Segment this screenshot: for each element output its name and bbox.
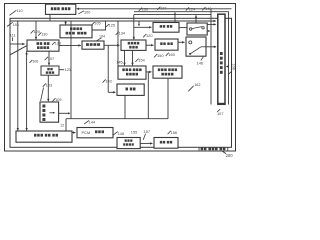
wire modem to rf box (146, 71, 151, 73)
svg-text:160: 160 (168, 52, 175, 57)
svg-text:106: 106 (32, 60, 38, 64)
svg-text:130: 130 (41, 32, 47, 36)
svg-text:142: 142 (105, 78, 112, 83)
wire amp down to bus2 (124, 95, 126, 118)
wire hpf to vocoder (104, 44, 119, 46)
switch 126 (hook switch) (187, 23, 207, 35)
bus2 horizontal y=118.7 (66, 118, 168, 120)
wire recorder right stub (59, 69, 64, 71)
svg-text:12: 12 (60, 123, 64, 127)
block 144 PCM converter (77, 128, 113, 138)
svg-text:107: 107 (217, 111, 224, 116)
svg-text:134: 134 (119, 32, 125, 36)
wire vocoder down to modem (x=124.5) (124, 50, 126, 65)
wire keypad out to vertical (59, 112, 70, 114)
block 104 hpf (82, 41, 104, 49)
label 103 above keypad (43, 83, 46, 86)
label 156 (168, 131, 171, 134)
block 124 box B (155, 39, 178, 50)
svg-text:103: 103 (46, 83, 52, 87)
label 110 top-left (10, 10, 17, 15)
block 120 encoder (60, 25, 92, 38)
wire bus drop into encoder box (65, 21, 67, 24)
wire codec diagonal to left frame (10, 46, 27, 55)
svg-text:122: 122 (160, 7, 166, 11)
label 125 above hpf (106, 24, 109, 27)
wire from left frame into codec (10, 43, 24, 45)
block 148 pcm decoder (117, 138, 140, 149)
wire codec down to recorder (48, 51, 50, 65)
label 160 below box B (166, 53, 169, 56)
wire box A to switch1 (179, 27, 187, 29)
svg-text:145: 145 (116, 59, 123, 64)
block 142 amp (117, 84, 144, 95)
wire decoder to backup box (140, 142, 152, 144)
wire box B to switch2 (178, 41, 184, 43)
label 134 (116, 32, 119, 35)
block 103 keypad input (40, 102, 59, 122)
label 109 above keypad right (52, 98, 55, 101)
svg-text:130: 130 (142, 8, 148, 12)
wire recorder down to keypad (47, 75, 49, 101)
wire into right box A (134, 26, 152, 28)
label 130 top bus (139, 8, 142, 11)
svg-text:121: 121 (65, 67, 72, 72)
label 100 (79, 11, 85, 14)
label 130 left of encoder (38, 32, 41, 35)
svg-text:146: 146 (197, 60, 204, 65)
wire branch into bar right side (227, 66, 229, 68)
wire stub arrow x=139 (138, 21, 140, 26)
outer system frame (5, 4, 236, 152)
wire bus drop to dial box (x=17.8) (17, 21, 19, 131)
wire bus2 drop into PCM box (66, 119, 75, 133)
wire rf down to bus2 (167, 78, 169, 119)
label 120 left of encoder (31, 30, 34, 33)
wire switch2 to speaker bar (206, 46, 216, 48)
svg-text:148: 148 (118, 132, 124, 136)
long vertical wire x=71 (bus to bus2) (70, 21, 72, 119)
label 154 above modem right (135, 59, 138, 62)
label 106 below codec (30, 60, 33, 63)
svg-text:155: 155 (131, 129, 138, 134)
wire bus drop into codec box (35, 21, 37, 39)
block 105 recorder (41, 66, 59, 75)
block 145 modem (118, 66, 146, 79)
block 156 backup power (154, 138, 178, 149)
label 107 below bar (217, 109, 220, 112)
block 106 codec converter (27, 40, 59, 51)
svg-text:123: 123 (55, 42, 61, 46)
speaker bar 108 (218, 14, 225, 104)
label 105 above hpf (92, 22, 95, 25)
svg-text:154: 154 (138, 59, 144, 63)
block 148 dial control (16, 131, 72, 142)
svg-text:150: 150 (157, 53, 164, 58)
wire y=11.7 to right then down x=228.5 (134, 12, 229, 105)
wire switch1 up to bus y=14.4 (195, 15, 197, 23)
svg-text:144: 144 (89, 121, 95, 125)
label 123 above codec-hpf wire (52, 42, 55, 45)
svg-text:105: 105 (94, 22, 100, 26)
hpf leader to label (97, 38, 102, 41)
svg-text:107: 107 (48, 57, 54, 61)
block 102 (top storage box) (46, 4, 76, 14)
svg-text:125: 125 (109, 24, 115, 28)
wire into amp box (108, 91, 115, 93)
wire switch1 to vertical (207, 30, 209, 32)
wire topbox bottom to bus (49, 14, 51, 21)
label 148 above bottom-left box (113, 132, 118, 136)
switch 146 (selector) (186, 37, 206, 56)
wire switch1 top output into bar (207, 23, 215, 25)
wire vertical x=133.8 into vocoder (133, 14, 135, 39)
label 150 below box B (154, 54, 157, 57)
label 101 left (7, 22, 13, 26)
block 150 rf unit (153, 66, 182, 78)
label 144 above PCM box (84, 120, 89, 124)
svg-text:PCM: PCM (82, 130, 91, 135)
wire codec bottom down to dial box (26, 51, 28, 130)
wire from right into topbox (y=8.8) (78, 8, 232, 10)
label 107 above recorder (45, 57, 48, 60)
svg-text:120: 120 (146, 33, 153, 38)
inner device frame (10, 18, 232, 147)
block 134 vocoder (121, 40, 146, 50)
label 120 below boxA (143, 34, 146, 37)
svg-text:108: 108 (232, 64, 236, 70)
label 122 top bus (157, 7, 160, 10)
wire codec to hpf (59, 44, 81, 46)
svg-text:162: 162 (194, 83, 200, 87)
label 124 top bus (186, 7, 189, 10)
bus wire y=21 (10, 20, 216, 22)
wire vocoder down to modem (x=132.5) (132, 50, 134, 65)
wire bus drop x=118 into modem top (117, 21, 119, 66)
wire box A up to bus y=11.7 (174, 12, 176, 22)
block 122 box A (153, 23, 179, 33)
svg-text:124: 124 (189, 7, 195, 11)
svg-text:100: 100 (84, 11, 90, 15)
svg-text:156: 156 (171, 130, 178, 135)
wire encoder out up to bus (92, 21, 106, 30)
svg-text:157: 157 (144, 129, 151, 134)
svg-text:104: 104 (99, 35, 105, 39)
label 142 (103, 79, 106, 82)
label 140 top bus (202, 7, 205, 10)
svg-text:200: 200 (226, 153, 234, 158)
wire junction x=148.3 down to bus2 (147, 72, 149, 119)
svg-text:111: 111 (10, 34, 16, 38)
svg-text:120: 120 (34, 30, 40, 34)
caption (voice memory device) (198, 147, 201, 150)
wire y=14.4 (134, 13, 211, 15)
long vertical x=211 (210, 9, 212, 105)
wire junction down to amp box (107, 45, 109, 92)
svg-text:110: 110 (17, 9, 23, 13)
wire vocoder to box B (146, 44, 153, 46)
